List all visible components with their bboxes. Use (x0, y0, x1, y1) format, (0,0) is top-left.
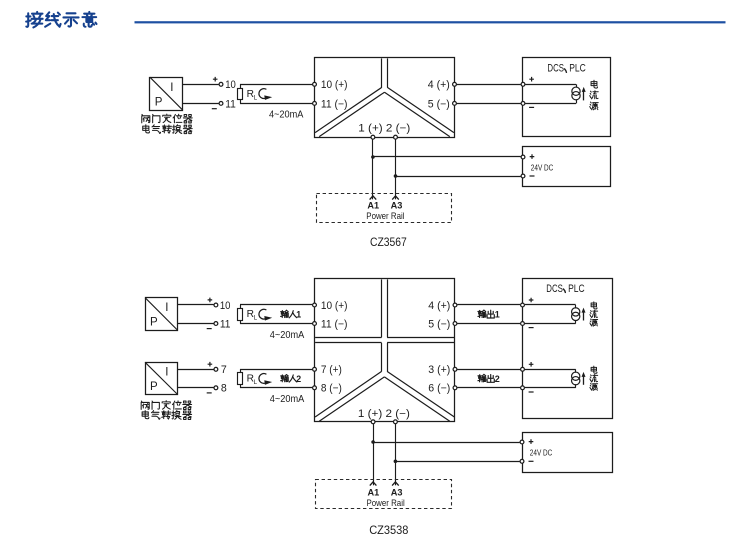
svg-text:4 (+): 4 (+) (428, 79, 450, 91)
wire to input 10(+) ch1 (240, 304, 312, 306)
DCS2 ch1 + terminal (521, 298, 534, 307)
24V - terminal (521, 174, 534, 178)
wire output2 + (457, 369, 520, 371)
terminal 11 ch1 (207, 318, 231, 330)
U2 pins 1(+) 2(-) (358, 408, 410, 423)
svg-text:2: 2 (296, 374, 301, 384)
svg-text:1: 1 (296, 310, 301, 320)
wire output + (457, 84, 521, 86)
label A3 (391, 201, 403, 211)
current source symbol (572, 84, 580, 103)
DCS PLC box 2 (523, 279, 613, 419)
U2 pin 3(+) (428, 364, 457, 376)
wire ch1 - (178, 323, 214, 325)
wire junction3 to 24V+ (373, 442, 519, 444)
U2 pin 8(-) (313, 383, 342, 395)
current loop arrow ch1 (259, 309, 272, 320)
wire junction2 to 24V- (396, 176, 521, 178)
power rail connector A3 (392, 196, 399, 200)
svg-text:6 (−): 6 (−) (428, 383, 450, 395)
svg-text:5 (−): 5 (−) (428, 98, 450, 110)
U2 pin 4(+) (428, 300, 457, 312)
24V DC supply box 2 (523, 433, 613, 473)
svg-text:11: 11 (220, 318, 231, 330)
svg-text:DCS: DCS (546, 283, 563, 295)
svg-text:10 (+): 10 (+) (321, 300, 348, 312)
label 电流源 ch1 (590, 302, 598, 326)
label Power Rail (2) (367, 498, 405, 508)
power rail connector A3 (2) (392, 482, 399, 486)
label 输出2 (478, 374, 500, 384)
isolator pin 10(+) (313, 79, 348, 91)
svg-text:10: 10 (220, 300, 231, 312)
junction node 4 (394, 460, 398, 464)
DCS2 ch1 - terminal (521, 322, 534, 328)
svg-text:I: I (165, 367, 168, 379)
isolator pin 5(-) (428, 98, 457, 110)
DCS PLC box (523, 58, 611, 137)
dunhao 2 (563, 289, 565, 292)
node terminal 11 (212, 98, 236, 110)
power rail dashed box (317, 194, 452, 223)
svg-text:7 (+): 7 (+) (321, 364, 342, 376)
svg-text:8: 8 (221, 383, 227, 395)
svg-text:P: P (150, 316, 158, 328)
U2 pin 7(+) (313, 364, 342, 376)
terminal 7 (208, 362, 227, 376)
label Power Rail (366, 211, 404, 221)
svg-text:P: P (155, 97, 163, 109)
U2 pin 10(+) (313, 300, 348, 312)
svg-text:A3: A3 (391, 488, 403, 498)
svg-text:L: L (254, 315, 258, 322)
svg-text:L: L (254, 379, 258, 386)
svg-text:4~20mA: 4~20mA (270, 394, 305, 405)
arrow ch1 (582, 308, 586, 321)
svg-text:PLC: PLC (568, 283, 585, 295)
arrow ch2 (582, 372, 586, 385)
label 电流源 ch2 (590, 366, 598, 390)
wire I/P - to terminal 11 (183, 103, 219, 105)
wire U2 pin1 down (373, 424, 375, 485)
label 电气转换器 (2) (142, 411, 191, 420)
label CZ3567 (370, 235, 407, 249)
U2 pin 6(-) (428, 383, 457, 395)
wire junction1 to 24V+ (373, 156, 521, 158)
wire to current source ch2 (525, 370, 576, 388)
label 电流源 (590, 80, 598, 109)
wire to isolator input 11(-) (240, 103, 312, 105)
current direction arrow (582, 87, 586, 101)
label A3 (2) (391, 488, 403, 498)
title 接线示意 (26, 12, 96, 27)
svg-text:A3: A3 (391, 201, 403, 211)
label 阀门定位器 (142, 114, 192, 123)
current loop arrow (259, 89, 272, 100)
svg-text:1 (+) 2 (−): 1 (+) 2 (−) (358, 122, 410, 134)
label 4~20mA ch1 (270, 330, 305, 341)
DCS2 ch2 + terminal (521, 362, 534, 371)
node terminal 10 (213, 77, 236, 91)
label 输出1 (478, 310, 500, 320)
wire ch1 + (178, 304, 214, 306)
svg-text:11 (−): 11 (−) (321, 318, 348, 330)
wire ch2 + (178, 369, 214, 371)
svg-text:1: 1 (495, 310, 500, 320)
isolator U1 CZ3567 body (315, 58, 455, 138)
wire pin1 down (372, 139, 374, 199)
terminal 8 (207, 383, 227, 395)
svg-text:L: L (254, 94, 258, 101)
svg-text:PLC: PLC (569, 63, 586, 75)
wire ch2 - (178, 387, 214, 389)
label A1 (367, 201, 379, 211)
label CZ3538 (369, 523, 408, 537)
wire junction4 to 24V- (395, 461, 519, 463)
isolation barrier cross (315, 279, 454, 421)
isolator pins 1(+) 2(-) (358, 122, 410, 139)
I/P converter channel 1 (145, 298, 177, 331)
junction node 1 (371, 155, 375, 159)
24V2 - terminal (520, 459, 533, 463)
svg-text:8 (−): 8 (−) (321, 383, 342, 395)
resistor RL ch1 (238, 305, 258, 324)
isolator U2 CZ3538 body (315, 279, 455, 422)
wire pin2 down (395, 139, 397, 199)
svg-text:Power Rail: Power Rail (367, 498, 405, 508)
wire output1 - (457, 323, 520, 325)
DCS terminal + (521, 77, 534, 86)
svg-text:I: I (170, 82, 173, 94)
label 输入2 (281, 374, 302, 384)
wire to current source (525, 85, 576, 104)
terminal 10 ch1 (208, 298, 231, 312)
current source ch2 (572, 369, 580, 388)
svg-text:A1: A1 (367, 201, 379, 211)
svg-text:5 (−): 5 (−) (428, 318, 450, 330)
svg-text:1 (+) 2 (−): 1 (+) 2 (−) (358, 408, 410, 420)
junction node 2 (394, 174, 398, 178)
svg-text:10: 10 (225, 79, 236, 91)
wire to input 11(-) ch1 (240, 323, 312, 325)
wire to isolator input 10(+) (240, 84, 312, 86)
label 4~20mA (269, 110, 304, 121)
resistor RL ch2 (238, 369, 258, 388)
24V DC supply box (523, 147, 611, 187)
wire to current source ch1 (525, 305, 576, 324)
svg-text:4~20mA: 4~20mA (270, 330, 305, 341)
power rail dashed box 2 (316, 480, 452, 509)
svg-text:11: 11 (225, 98, 236, 110)
U2 pin 5(-) (428, 318, 457, 330)
svg-text:11 (−): 11 (−) (321, 98, 348, 110)
24V2 + terminal (520, 439, 533, 444)
current loop arrow ch2 (259, 374, 272, 385)
wire U2 pin2 down (395, 424, 397, 485)
I/P converter (valve positioner) (150, 77, 183, 110)
dunhao (565, 69, 567, 72)
svg-text:24V DC: 24V DC (531, 163, 554, 172)
svg-text:I: I (165, 302, 168, 314)
DCS2 ch2 - terminal (521, 386, 534, 392)
svg-text:CZ3567: CZ3567 (370, 235, 407, 249)
I/P converter channel 2 (145, 362, 177, 394)
power rail connector A1 (2) (370, 482, 377, 486)
svg-text:10 (+): 10 (+) (321, 79, 348, 91)
resistor RL (load) (238, 84, 258, 103)
svg-text:A1: A1 (368, 488, 380, 498)
isolator pin 4(+) (428, 79, 457, 91)
svg-text:7: 7 (221, 364, 227, 376)
title rule (135, 21, 726, 23)
label 电气转换器 (143, 125, 192, 134)
svg-text:24V DC: 24V DC (530, 448, 553, 457)
U2 pin 11(-) (313, 318, 348, 330)
label A1 (2) (368, 488, 380, 498)
power rail connector A1 (370, 196, 377, 200)
wire output - (457, 103, 521, 105)
svg-text:4 (+): 4 (+) (428, 300, 450, 312)
svg-text:2: 2 (495, 374, 500, 384)
isolation barrier (3-port Y) (315, 58, 454, 136)
junction node 3 (371, 440, 375, 444)
wire I/P + to terminal 10 (183, 84, 219, 86)
DCS terminal - (521, 102, 534, 108)
wire output2 - (457, 387, 520, 389)
24V + terminal (521, 154, 534, 159)
label 阀门定位器 (2) (141, 401, 191, 410)
svg-text:CZ3538: CZ3538 (369, 523, 408, 537)
isolator pin 11(-) (313, 98, 348, 110)
svg-text:P: P (150, 381, 158, 393)
svg-text:Power Rail: Power Rail (366, 211, 404, 221)
svg-text:4~20mA: 4~20mA (269, 110, 304, 121)
current source ch1 (572, 305, 580, 324)
svg-text:DCS: DCS (547, 63, 564, 75)
wire to input 8(-) (240, 387, 312, 389)
svg-text:3 (+): 3 (+) (428, 364, 450, 376)
wire to input 7(+) (240, 369, 312, 371)
wire output1 + (457, 304, 520, 306)
label 输入1 (281, 310, 302, 320)
label 4~20mA ch2 (270, 394, 305, 405)
